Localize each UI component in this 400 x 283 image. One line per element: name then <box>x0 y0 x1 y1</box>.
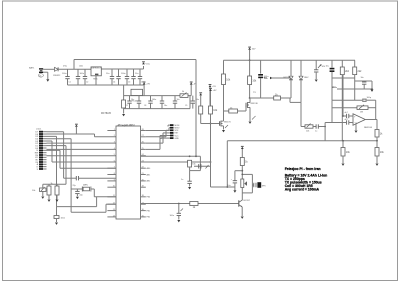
svg-text:C9: C9 <box>185 105 187 107</box>
svg-text:100u: 100u <box>62 73 66 75</box>
svg-text:RX+: RX+ <box>333 87 338 89</box>
svg-text:10u: 10u <box>326 66 329 68</box>
svg-text:100n: 100n <box>80 73 84 75</box>
svg-text:AN1: AN1 <box>147 173 151 176</box>
svg-text:1u: 1u <box>181 179 183 181</box>
svg-text:10k: 10k <box>306 131 309 133</box>
svg-text:100n: 100n <box>79 66 83 68</box>
svg-text:3: 3 <box>114 142 115 144</box>
svg-text:NE5534: NE5534 <box>364 127 373 129</box>
svg-text:100n: 100n <box>170 215 174 217</box>
svg-text:1u: 1u <box>315 131 317 133</box>
svg-text:5: 5 <box>114 154 115 156</box>
svg-text:ATmega8-16PU: ATmega8-16PU <box>118 124 135 127</box>
svg-text:10u: 10u <box>106 73 109 75</box>
svg-text:IRF740: IRF740 <box>251 103 259 105</box>
svg-text:MC78L05: MC78L05 <box>101 113 112 115</box>
svg-text:BAT1: BAT1 <box>29 67 35 70</box>
svg-text:10u: 10u <box>131 99 134 101</box>
svg-text:VCC: VCC <box>146 63 151 65</box>
svg-text:100n: 100n <box>121 73 125 75</box>
svg-text:4MHz: 4MHz <box>83 185 88 187</box>
svg-text:PB0: PB0 <box>147 197 151 199</box>
svg-text:1M: 1M <box>360 112 363 114</box>
svg-text:2k2: 2k2 <box>358 70 363 73</box>
svg-text:PB2: PB2 <box>147 217 151 219</box>
svg-text:LCD1: LCD1 <box>36 129 42 131</box>
svg-text:GND: GND <box>175 138 180 140</box>
svg-text:1k: 1k <box>51 183 53 185</box>
svg-text:100n: 100n <box>61 218 65 220</box>
svg-text:+5V: +5V <box>212 86 216 88</box>
svg-text:2: 2 <box>114 135 115 137</box>
svg-text:+8V: +8V <box>213 90 217 92</box>
svg-text:BY228: BY228 <box>284 77 291 79</box>
svg-text:10u: 10u <box>135 73 138 75</box>
svg-text:5k: 5k <box>182 91 184 93</box>
svg-text:C8: C8 <box>144 105 146 107</box>
svg-text:22p: 22p <box>80 195 83 197</box>
svg-text:LM7805CT: LM7805CT <box>92 67 102 69</box>
svg-text:AN0: AN0 <box>147 167 151 170</box>
svg-text:AN2: AN2 <box>147 180 151 183</box>
svg-text:TX-: TX- <box>264 76 268 80</box>
svg-text:PB1: PB1 <box>147 210 151 212</box>
svg-text:2k2: 2k2 <box>345 70 350 73</box>
svg-text:C1: C1 <box>69 82 71 84</box>
svg-text:C5: C5 <box>128 82 130 84</box>
svg-text:Avg current = 100mA: Avg current = 100mA <box>285 187 320 191</box>
svg-text:C7: C7 <box>126 105 128 107</box>
svg-text:100n: 100n <box>152 99 156 101</box>
svg-text:Felezjoo PI - from Iran: Felezjoo PI - from Iran <box>285 167 321 171</box>
svg-text:10u: 10u <box>164 105 167 107</box>
svg-text:+9V: +9V <box>146 84 150 86</box>
svg-text:10n: 10n <box>361 77 364 79</box>
svg-text:16: 16 <box>39 75 41 77</box>
svg-text:C2: C2 <box>86 82 88 84</box>
svg-text:10u: 10u <box>227 185 230 187</box>
svg-text:470u: 470u <box>63 66 67 68</box>
svg-text:10u: 10u <box>177 99 180 101</box>
svg-text:BS170: BS170 <box>224 122 231 124</box>
svg-text:-5V: -5V <box>193 84 197 86</box>
svg-text:4n7: 4n7 <box>345 112 348 114</box>
svg-text:C4: C4 <box>113 82 115 84</box>
svg-text:1N5822: 1N5822 <box>53 75 61 77</box>
svg-text:4n7: 4n7 <box>345 119 348 121</box>
svg-text:BC337: BC337 <box>244 200 251 202</box>
svg-text:6: 6 <box>114 160 115 162</box>
svg-text:16V: 16V <box>252 49 256 51</box>
svg-text:22p: 22p <box>73 185 76 187</box>
svg-text:4: 4 <box>114 148 115 150</box>
svg-text:180V: 180V <box>304 77 309 79</box>
